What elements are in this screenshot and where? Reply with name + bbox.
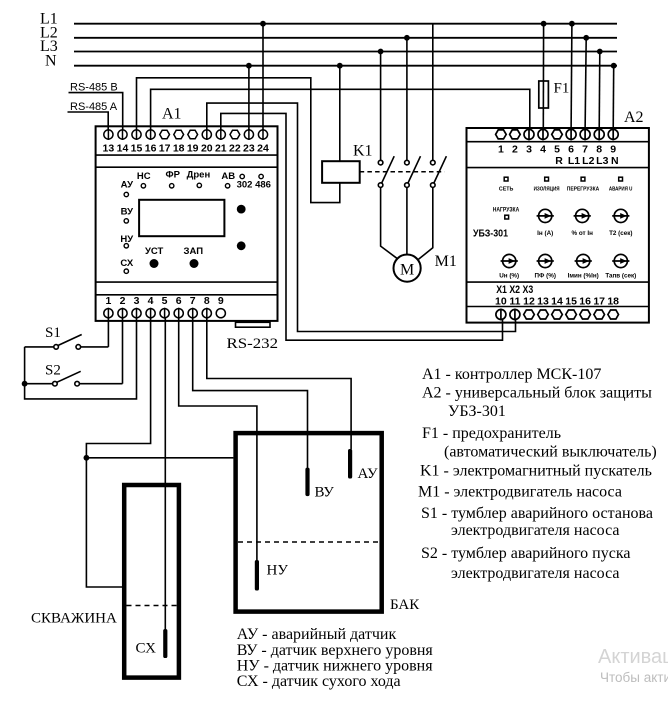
svg-text:Активация: Активация bbox=[598, 646, 668, 668]
svg-text:ИЗОЛЯЦИЯ: ИЗОЛЯЦИЯ bbox=[534, 187, 560, 193]
svg-text:УБЗ-301: УБЗ-301 bbox=[448, 403, 506, 420]
wire A1 t23 to N bbox=[248, 66, 250, 131]
svg-text:УБЗ-301: УБЗ-301 bbox=[473, 228, 508, 240]
wire S1 to A1 t1 bbox=[107, 318, 109, 347]
svg-text:A1 - контроллер МСК-107: A1 - контроллер МСК-107 bbox=[422, 366, 601, 383]
wire L1 to A2 t6 bbox=[570, 24, 573, 131]
svg-text:Iмин (%Iн): Iмин (%Iн) bbox=[568, 273, 599, 280]
A2 LED labels bbox=[499, 187, 632, 193]
svg-text:УСТ: УСТ bbox=[145, 246, 164, 257]
svg-text:A2: A2 bbox=[624, 109, 644, 126]
svg-text:14: 14 bbox=[117, 143, 129, 155]
svg-text:СХ: СХ bbox=[136, 641, 157, 657]
wire A1 t8 to АУ sensor bbox=[207, 318, 351, 450]
A2 bottom terminals 10-18 bbox=[496, 309, 619, 321]
A2 phase labels R L1 L2 L3 N bbox=[555, 155, 618, 167]
svg-text:1: 1 bbox=[105, 295, 111, 307]
svg-text:3: 3 bbox=[134, 295, 140, 307]
LED ВУ bbox=[124, 219, 128, 223]
svg-text:K1 - электромагнитный пускател: K1 - электромагнитный пускатель bbox=[420, 463, 652, 480]
svg-text:НАГРУЗКА: НАГРУЗКА bbox=[493, 207, 520, 214]
svg-text:14: 14 bbox=[551, 296, 563, 308]
A1 bottom terminals 1-9 bbox=[104, 308, 226, 319]
A2 LED АВАРИЯ U bbox=[619, 177, 623, 181]
svg-text:M1 - электродвигатель насоса: M1 - электродвигатель насоса bbox=[418, 484, 622, 501]
protection block A2 УБЗ-301 box bbox=[467, 128, 649, 323]
motor M1 bbox=[394, 255, 421, 282]
svg-text:Тапв (сек): Тапв (сек) bbox=[605, 273, 636, 280]
svg-text:2: 2 bbox=[512, 143, 518, 155]
potentiometer % от Iн bbox=[574, 209, 591, 222]
RS-232 connector tab bbox=[236, 322, 271, 327]
tank БАК bbox=[236, 433, 382, 611]
svg-text:ФР: ФР bbox=[165, 169, 180, 180]
svg-text:ЗАП: ЗАП bbox=[184, 246, 204, 257]
legend bottom sensors bbox=[237, 626, 434, 690]
svg-text:ВУ: ВУ bbox=[315, 485, 335, 501]
K1 linkage dashed line bbox=[360, 171, 445, 173]
svg-text:L2: L2 bbox=[582, 155, 594, 167]
svg-text:АВ: АВ bbox=[221, 171, 235, 182]
fuse F1 bbox=[539, 81, 549, 108]
node L2/K1 bbox=[404, 35, 410, 41]
potentiometer Uн (%) bbox=[501, 254, 518, 267]
A1 top terminals 13-24 bbox=[104, 129, 268, 140]
A2 top terminal numbers bbox=[498, 143, 616, 155]
svg-text:5: 5 bbox=[554, 143, 560, 155]
svg-text:X1 X2 X3: X1 X2 X3 bbox=[496, 284, 533, 296]
LED СХ bbox=[124, 269, 128, 273]
wire A1 t7 to ВУ sensor bbox=[193, 318, 308, 468]
svg-text:13: 13 bbox=[537, 296, 549, 308]
svg-text:R: R bbox=[555, 155, 563, 167]
wire L1 to F1 to A2 t4 bbox=[542, 24, 544, 131]
svg-text:K1: K1 bbox=[353, 143, 373, 160]
svg-text:СКВАЖИНА: СКВАЖИНА bbox=[31, 611, 117, 627]
svg-text:18: 18 bbox=[607, 296, 619, 308]
СКВАЖИНА water level dashed bbox=[127, 605, 177, 607]
pot labels row 1 bbox=[537, 230, 632, 237]
svg-text:АУ - аварийный датчик: АУ - аварийный датчик bbox=[237, 626, 397, 643]
LED НУ bbox=[124, 244, 128, 248]
svg-text:N: N bbox=[45, 52, 57, 69]
svg-text:НУ: НУ bbox=[267, 563, 289, 579]
sensor АУ bar bbox=[348, 449, 352, 479]
svg-text:10: 10 bbox=[495, 296, 507, 308]
svg-text:1: 1 bbox=[498, 143, 504, 155]
contactor K1 coil bbox=[322, 161, 360, 183]
svg-text:НС: НС bbox=[137, 171, 151, 182]
svg-text:Т2 (сек): Т2 (сек) bbox=[609, 230, 632, 237]
node S2 common bbox=[22, 381, 28, 387]
svg-text:9: 9 bbox=[610, 143, 616, 155]
svg-text:S1: S1 bbox=[45, 325, 61, 341]
svg-text:15: 15 bbox=[131, 143, 143, 155]
tank СКВАЖИНА bbox=[124, 485, 179, 678]
БАК water level dashed bbox=[238, 541, 380, 543]
wire RS-485 B to terminal 14 bbox=[69, 93, 123, 131]
wire RS-485 A to terminal 13 bbox=[68, 112, 109, 130]
svg-text:% от Iн: % от Iн bbox=[571, 230, 593, 237]
potentiometer Iмин (%Iн) bbox=[575, 254, 592, 267]
potentiometer ПФ (%) bbox=[537, 254, 554, 267]
legend right column bbox=[418, 366, 657, 582]
A2 LED ИЗОЛЯЦИЯ bbox=[545, 177, 549, 181]
wire N to K1 coil top bbox=[339, 66, 341, 162]
svg-text:A1: A1 bbox=[162, 106, 182, 123]
svg-text:8: 8 bbox=[596, 143, 602, 155]
wire A1 t4 common electrode to tanks bbox=[86, 318, 150, 587]
svg-text:16: 16 bbox=[145, 143, 157, 155]
node N/A2t9 bbox=[611, 63, 617, 69]
wire A1 t21 to A2 t10 bbox=[221, 113, 503, 340]
svg-text:17: 17 bbox=[159, 143, 171, 155]
svg-text:S2 - тумблер аварийного пуска: S2 - тумблер аварийного пуска bbox=[421, 545, 630, 562]
svg-text:16: 16 bbox=[579, 296, 591, 308]
svg-text:F1: F1 bbox=[554, 81, 570, 97]
svg-text:АУ: АУ bbox=[121, 180, 133, 191]
svg-text:302: 302 bbox=[237, 180, 253, 191]
bus L3 bbox=[74, 51, 617, 53]
svg-text:486: 486 bbox=[255, 180, 271, 191]
bus L2 bbox=[74, 37, 617, 39]
wire S1/S2 common to A1 t3 bbox=[25, 318, 137, 399]
wire S2 to A1 t2 bbox=[122, 318, 124, 384]
wire L3 to A2 t8 bbox=[598, 52, 601, 131]
svg-text:13: 13 bbox=[103, 143, 115, 155]
svg-text:АВАРИЯ U: АВАРИЯ U bbox=[609, 187, 633, 193]
svg-text:Чтобы актив: Чтобы актив bbox=[600, 670, 668, 685]
node L1/A2t6 bbox=[569, 21, 575, 27]
svg-text:RS-485 B: RS-485 B bbox=[70, 82, 118, 94]
node L1/t24 bbox=[260, 21, 266, 27]
sensor НУ bar bbox=[255, 560, 259, 591]
svg-text:9: 9 bbox=[218, 295, 224, 307]
bus L1 bbox=[74, 23, 617, 25]
svg-text:24: 24 bbox=[257, 143, 269, 155]
K1 contact 1 (L3 phase) bbox=[378, 52, 394, 188]
svg-text:11: 11 bbox=[509, 296, 520, 308]
wire L2 to A2 t7 bbox=[585, 38, 586, 131]
sensor СХ bar bbox=[163, 629, 167, 658]
svg-text:4: 4 bbox=[148, 295, 154, 307]
svg-text:Дрен: Дрен bbox=[187, 169, 211, 180]
potentiometer Тапв (сек) bbox=[612, 254, 629, 267]
svg-text:ВУ - датчик верхнего уровня: ВУ - датчик верхнего уровня bbox=[237, 642, 434, 659]
svg-text:СХ - датчик сухого хода: СХ - датчик сухого хода bbox=[237, 673, 401, 690]
svg-text:12: 12 bbox=[523, 296, 535, 308]
svg-text:19: 19 bbox=[187, 143, 199, 155]
wire A1 t15 to K1 coil bottom bbox=[137, 78, 340, 203]
svg-text:23: 23 bbox=[243, 143, 255, 155]
controller A1 MCK-107 box bbox=[96, 126, 278, 321]
node N/K1coil bbox=[337, 63, 343, 69]
potentiometer Iн (А) bbox=[537, 209, 554, 222]
node L3/K1 bbox=[378, 49, 384, 55]
svg-text:АУ: АУ bbox=[358, 466, 379, 482]
A1 front panel LEDs and labels bbox=[120, 169, 271, 269]
wire A1 t20 to A2 t11 bbox=[207, 103, 516, 331]
svg-text:электродвигателя насоса: электродвигателя насоса bbox=[451, 522, 619, 539]
A1 bottom terminal numbers bbox=[105, 295, 223, 307]
LED 302 bbox=[240, 174, 244, 178]
svg-text:F1 - предохранитель: F1 - предохранитель bbox=[422, 425, 561, 442]
svg-text:15: 15 bbox=[565, 296, 577, 308]
A2 LED ПЕРЕГРУЗКА bbox=[581, 177, 585, 181]
A2 LED СЕТЬ bbox=[504, 177, 508, 181]
svg-text:A2 - универсальный блок защиты: A2 - универсальный блок защиты bbox=[422, 385, 652, 402]
K1 contact 2 (L2 phase) bbox=[405, 38, 421, 188]
svg-text:НУ - датчик нижнего уровня: НУ - датчик нижнего уровня bbox=[237, 658, 434, 675]
wire A1 t16 to A2 t3 R bbox=[151, 89, 530, 130]
wire A1 t6 to НУ sensor bbox=[179, 318, 257, 561]
svg-text:22: 22 bbox=[229, 143, 241, 155]
A2 top terminals 1-9 bbox=[496, 129, 619, 141]
svg-text:(автоматический выключатель): (автоматический выключатель) bbox=[444, 444, 657, 461]
wire N to A2 t9 bbox=[612, 66, 615, 131]
node L3/A2t8 bbox=[597, 49, 603, 55]
svg-text:6: 6 bbox=[176, 295, 182, 307]
LED 486 bbox=[259, 174, 263, 178]
svg-text:3: 3 bbox=[526, 143, 532, 155]
wire contact1 to motor bbox=[381, 187, 397, 258]
A1 display window bbox=[139, 200, 224, 236]
svg-text:20: 20 bbox=[201, 143, 213, 155]
svg-text:Uн (%): Uн (%) bbox=[499, 273, 519, 280]
svg-text:ПЕРЕГРУЗКА: ПЕРЕГРУЗКА bbox=[567, 187, 600, 193]
LED АУ bbox=[124, 192, 128, 196]
svg-text:7: 7 bbox=[582, 143, 588, 155]
wire A1 t24 to L1 bbox=[262, 24, 264, 131]
node L1/F1 bbox=[541, 21, 547, 27]
sensor ВУ bar bbox=[305, 468, 309, 497]
svg-text:L1: L1 bbox=[568, 155, 580, 167]
svg-text:СХ: СХ bbox=[120, 258, 133, 269]
svg-text:Iн (А): Iн (А) bbox=[537, 230, 553, 237]
svg-text:СЕТЬ: СЕТЬ bbox=[499, 187, 514, 193]
K1 contact 3 (L1 phase) bbox=[431, 24, 447, 188]
svg-text:L3: L3 bbox=[596, 155, 608, 167]
svg-text:7: 7 bbox=[190, 295, 196, 307]
node N/t23 bbox=[246, 63, 252, 69]
svg-text:RS-485 A: RS-485 A bbox=[70, 101, 118, 113]
LED АВ bbox=[225, 184, 229, 188]
svg-text:17: 17 bbox=[593, 296, 605, 308]
junction dots on buses bbox=[246, 21, 617, 69]
svg-text:S2: S2 bbox=[45, 363, 61, 379]
node common/tank bbox=[84, 455, 90, 461]
svg-text:18: 18 bbox=[173, 143, 185, 155]
svg-text:N: N bbox=[611, 155, 619, 167]
svg-text:ВУ: ВУ bbox=[121, 207, 133, 218]
svg-text:2: 2 bbox=[120, 295, 126, 307]
LED НС bbox=[141, 184, 145, 188]
wire A1 t5 to СХ sensor bbox=[164, 318, 166, 630]
svg-text:электродвигателя насоса: электродвигателя насоса bbox=[451, 565, 619, 582]
svg-text:8: 8 bbox=[204, 295, 210, 307]
A1 top terminal numbers bbox=[103, 143, 269, 155]
svg-text:M1: M1 bbox=[435, 253, 457, 270]
A1 knob lower bbox=[237, 241, 246, 250]
wire contact2 to motor bbox=[406, 187, 408, 254]
potentiometer Т2 (сек) bbox=[612, 209, 629, 222]
svg-text:М: М bbox=[400, 262, 414, 279]
A1 knob upper bbox=[237, 205, 246, 214]
bus N bbox=[74, 65, 617, 67]
svg-text:БАК: БАК bbox=[390, 597, 420, 613]
svg-text:RS-232: RS-232 bbox=[227, 336, 279, 352]
svg-text:5: 5 bbox=[162, 295, 168, 307]
A2 bottom terminal numbers 10-18 bbox=[495, 296, 619, 308]
svg-text:21: 21 bbox=[215, 143, 227, 155]
pot labels row 2 bbox=[499, 273, 636, 280]
LED Дрен bbox=[197, 183, 201, 187]
svg-text:6: 6 bbox=[568, 143, 574, 155]
node L2/A2t7 bbox=[583, 35, 589, 41]
svg-text:ПФ (%): ПФ (%) bbox=[534, 273, 555, 280]
LED ФР bbox=[170, 184, 174, 188]
wire contact3 to motor bbox=[419, 187, 433, 259]
svg-text:4: 4 bbox=[540, 143, 546, 155]
svg-text:S1 - тумблер аварийного остано: S1 - тумблер аварийного останова bbox=[421, 505, 653, 522]
